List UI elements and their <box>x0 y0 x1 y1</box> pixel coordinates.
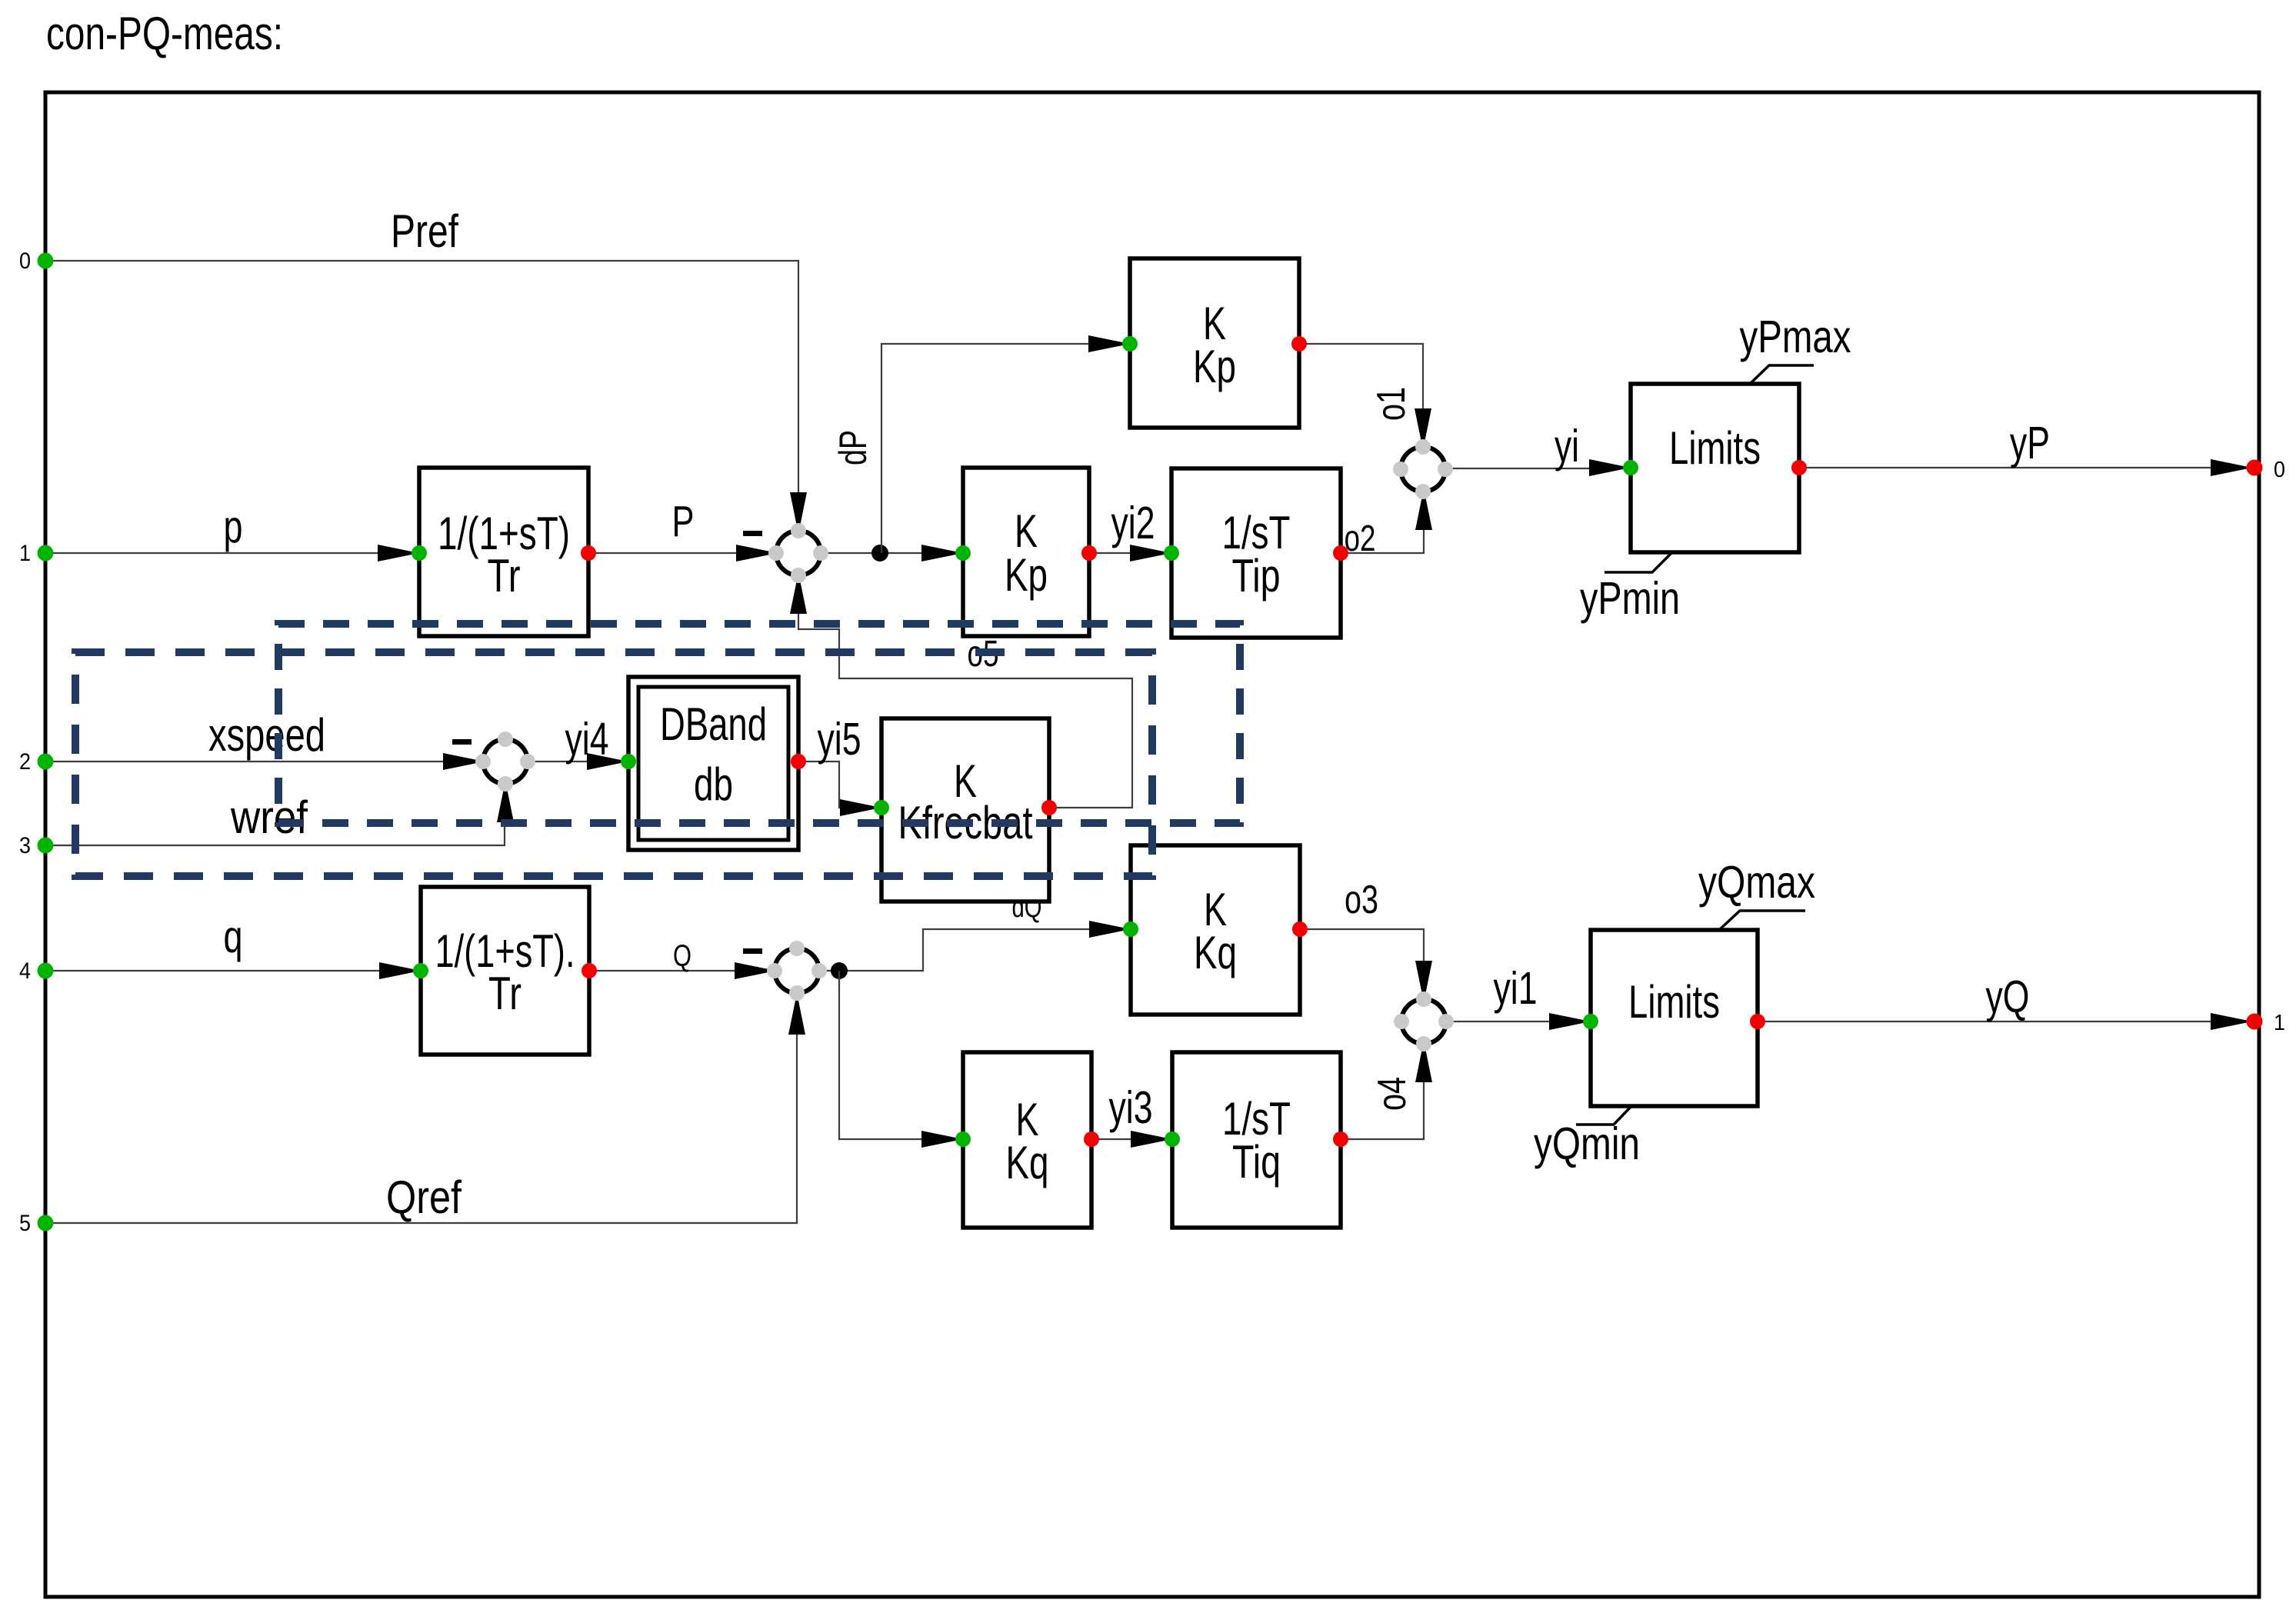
wire from sum S1 through junction to block Kp mid <box>821 552 923 554</box>
svg-text:yi1: yi1 <box>1494 963 1538 1014</box>
svg-text:wref: wref <box>230 792 308 843</box>
label yPmin with leader <box>1605 552 1672 572</box>
block Tr1 1/(1+sT) <box>419 468 588 636</box>
wire yi1 from sum S4 to block Limits Q <box>1446 1021 1551 1022</box>
minus sign at sum S1 <box>743 531 762 536</box>
svg-text:5: 5 <box>19 1211 31 1236</box>
label yQmax with leader <box>1719 911 1805 930</box>
svg-text:yPmin: yPmin <box>1580 573 1680 624</box>
svg-text:yQ: yQ <box>1986 971 2030 1022</box>
block Kfrecbat gain <box>881 718 1049 901</box>
svg-text:yP: yP <box>2010 418 2050 468</box>
svg-text:p: p <box>224 502 243 552</box>
svg-text:xspeed: xspeed <box>208 709 325 761</box>
wire Qref from input 5 to sum S3 bottom <box>45 1033 797 1223</box>
wire xspeed from input 2 to sum S5 <box>45 761 443 762</box>
svg-text:Kp: Kp <box>1193 341 1236 392</box>
block DBand deadband <box>628 677 798 850</box>
svg-text:yi2: yi2 <box>1111 498 1155 548</box>
svg-text:o4: o4 <box>1370 1077 1415 1111</box>
svg-text:Pref: Pref <box>391 205 458 257</box>
wire yi5 from DBand to block Kfrecbat <box>798 762 841 808</box>
block Kq top K/Kq <box>1131 845 1300 1015</box>
svg-text:Tip: Tip <box>1232 550 1281 602</box>
wire from sum S3 to junction and block Kq top (dQ) <box>819 929 1091 971</box>
svg-text:o3: o3 <box>1345 878 1378 922</box>
svg-text:yQmin: yQmin <box>1534 1118 1640 1169</box>
svg-text:yi: yi <box>1555 421 1579 472</box>
svg-text:0: 0 <box>2274 458 2285 482</box>
output node 1 (yQ) <box>2247 1014 2263 1030</box>
summation point S5 (speed error) <box>475 732 535 792</box>
input node 0 <box>38 253 54 269</box>
input node 2 <box>38 754 54 770</box>
block Kp mid K/Kp <box>963 468 1089 636</box>
summation point S2 (o1+o2) <box>1393 439 1453 499</box>
junction dQ node <box>831 962 848 979</box>
input node 4 <box>38 963 54 979</box>
svg-text:3: 3 <box>19 833 31 858</box>
wire yi from sum S2 to block Limits P <box>1445 468 1592 469</box>
label yQmin with leader <box>1576 1106 1631 1125</box>
svg-text:q: q <box>224 911 243 962</box>
dashed group frame B (outer) <box>75 652 1152 876</box>
svg-text:dP: dP <box>831 430 875 465</box>
wire yi4 from sum S5 to block DBand <box>528 761 588 762</box>
svg-text:yPmax: yPmax <box>1740 312 1851 362</box>
svg-text:DBand: DBand <box>660 698 767 750</box>
svg-text:2: 2 <box>19 749 31 775</box>
wire o4 from Tiq to sum S4 bottom <box>1341 1081 1424 1139</box>
svg-text:con-PQ-meas:: con-PQ-meas: <box>46 8 283 59</box>
svg-text:yi5: yi5 <box>818 714 861 765</box>
svg-text:Limits: Limits <box>1628 976 1720 1028</box>
svg-text:4: 4 <box>19 958 31 984</box>
label yPmax with leader <box>1749 365 1814 385</box>
input node 1 <box>38 545 54 562</box>
block Kp top K/Kp <box>1130 258 1299 428</box>
summation point S4 (o3+o4) <box>1394 991 1454 1051</box>
wire o5 from Kfrecbat up to sum S1 bottom <box>798 612 1132 808</box>
svg-text:1: 1 <box>2274 1011 2285 1035</box>
svg-text:Tr: Tr <box>488 550 521 602</box>
wire P from Tr1 to sum S1 <box>588 552 736 554</box>
wire Pref from input 0 to sum S1 top <box>45 261 798 492</box>
dashed group frame A (inner) <box>278 624 1240 823</box>
svg-text:o2: o2 <box>1345 518 1376 559</box>
minus sign at sum S5 <box>452 739 472 745</box>
minus sign at sum S3 <box>743 948 762 954</box>
svg-text:P: P <box>672 497 695 546</box>
svg-text:yi3: yi3 <box>1109 1082 1153 1133</box>
wire Q from Tr2 to sum S3 <box>589 970 735 971</box>
svg-text:Kp: Kp <box>1005 549 1048 601</box>
wire o1 from Kp top to sum S2 top <box>1299 344 1423 410</box>
wire yQ from Limits Q to output 1 <box>1758 1021 2247 1022</box>
svg-text:1: 1 <box>19 541 31 566</box>
wire yi2 from Kp mid to block Tip <box>1089 552 1131 554</box>
svg-text:Tr: Tr <box>488 968 522 1019</box>
svg-text:Qref: Qref <box>386 1171 462 1223</box>
wire o3 from Kq top to sum S4 top <box>1300 929 1424 962</box>
wire from junction down to block Kq bottom <box>839 971 923 1139</box>
wire p from input 1 to block Tr1 <box>45 552 382 554</box>
svg-text:0: 0 <box>19 248 31 274</box>
wire yi3 from Kq bottom to block Tiq <box>1091 1138 1132 1140</box>
junction dP node <box>871 545 888 562</box>
wire wref from input 3 to sum S5 bottom <box>45 821 505 845</box>
block Kq bottom K/Kq <box>963 1052 1091 1228</box>
output node 0 (yP) <box>2247 460 2263 476</box>
block Tip 1/sT <box>1171 468 1341 638</box>
svg-text:Limits: Limits <box>1669 422 1761 474</box>
wire dP riser from junction to block Kp top <box>881 344 1090 553</box>
svg-text:yi4: yi4 <box>565 714 609 765</box>
input node 3 <box>38 838 54 854</box>
input node 5 <box>38 1215 54 1231</box>
svg-text:yQmax: yQmax <box>1698 857 1815 908</box>
block Limits P <box>1631 384 1799 552</box>
summation point S1 (P error) <box>768 523 828 583</box>
block Tr2 1/(1+sT). <box>421 887 589 1055</box>
svg-text:o1: o1 <box>1369 387 1414 421</box>
block Limits Q <box>1591 930 1758 1106</box>
svg-text:Q: Q <box>673 939 691 973</box>
svg-text:db: db <box>694 758 733 810</box>
wire o2 from Tip to sum S2 bottom <box>1341 528 1424 553</box>
svg-text:Kq: Kq <box>1006 1137 1049 1188</box>
wire yP from Limits P to output 0 <box>1799 467 2247 468</box>
svg-text:Kq: Kq <box>1194 927 1237 978</box>
wire q from input 4 to block Tr2 <box>45 970 384 971</box>
svg-text:Tiq: Tiq <box>1232 1136 1281 1188</box>
block Tiq 1/sT <box>1172 1052 1341 1228</box>
summation point S3 (Q error) <box>767 941 827 1001</box>
